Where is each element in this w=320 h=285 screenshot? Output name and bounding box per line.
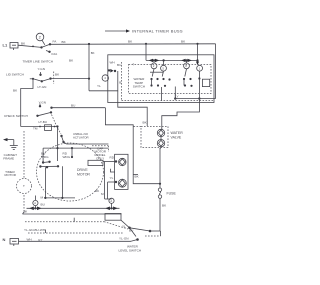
svg-text:ACTUATOR: ACTUATOR: [73, 136, 89, 140]
svg-text:WATER: WATER: [171, 131, 184, 135]
svg-text:BU: BU: [117, 63, 121, 67]
svg-text:WDG: WDG: [63, 155, 71, 159]
svg-text:YL-GN: YL-GN: [119, 237, 128, 241]
svg-text:A: A: [110, 199, 112, 203]
svg-text:YL: YL: [110, 176, 114, 180]
svg-text:LT-BU: LT-BU: [39, 120, 48, 124]
svg-text:GY: GY: [38, 238, 42, 242]
svg-text:MOTOR: MOTOR: [5, 173, 17, 177]
svg-text:RD: RD: [110, 156, 115, 160]
svg-text:F2A: F2A: [52, 52, 59, 56]
svg-text:CHECK SWITCH: CHECK SWITCH: [4, 114, 28, 118]
svg-text:L1: L1: [3, 43, 8, 48]
svg-text:BK: BK: [91, 51, 95, 55]
svg-text:WDG: WDG: [41, 155, 49, 159]
svg-text:7: 7: [133, 63, 135, 67]
svg-text:TM: TM: [33, 126, 38, 130]
svg-text:A: A: [34, 201, 36, 205]
svg-text:MOTOR: MOTOR: [77, 173, 90, 177]
svg-text:LID SWITCH: LID SWITCH: [6, 73, 24, 77]
svg-text:BK: BK: [24, 210, 28, 214]
svg-text:Y-GN: Y-GN: [38, 67, 45, 71]
svg-text:FRAME: FRAME: [3, 157, 14, 161]
svg-text:ONLY: ONLY: [96, 157, 104, 161]
svg-text:BU: BU: [129, 229, 133, 233]
svg-text:WH: WH: [110, 61, 115, 65]
svg-text:SWITCH: SWITCH: [133, 85, 145, 89]
svg-text:LEVEL SWITCH: LEVEL SWITCH: [119, 249, 142, 253]
svg-text:VALVE: VALVE: [171, 136, 182, 140]
svg-text:M: M: [101, 192, 104, 196]
svg-text:INTERNAL TIMER BUSS: INTERNAL TIMER BUSS: [132, 29, 183, 34]
svg-text:M: M: [41, 196, 44, 200]
svg-text:BU: BU: [71, 104, 75, 108]
svg-text:TIMER LINE SWITCH: TIMER LINE SWITCH: [23, 60, 53, 64]
svg-text:T: T: [23, 184, 25, 188]
svg-text:FUSE: FUSE: [167, 192, 177, 196]
svg-text:WH: WH: [27, 238, 32, 242]
svg-text:YL-GN-BU-WH: YL-GN-BU-WH: [24, 228, 45, 232]
svg-text:LT-GN: LT-GN: [38, 85, 47, 89]
svg-text:DRIVE: DRIVE: [77, 168, 88, 172]
svg-text:YL: YL: [97, 84, 101, 88]
svg-text:N: N: [3, 237, 6, 242]
svg-text:B: B: [119, 80, 121, 84]
svg-text:YL: YL: [122, 225, 126, 229]
svg-text:Y: Y: [177, 95, 179, 99]
svg-text:BU: BU: [41, 203, 45, 207]
